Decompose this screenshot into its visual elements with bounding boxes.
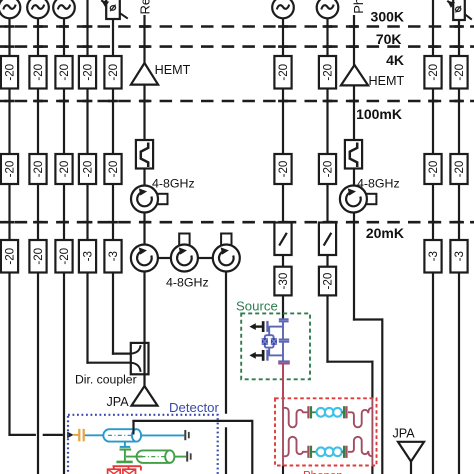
directional coupler bbox=[131, 343, 149, 374]
wire column B 100mK bbox=[326, 184, 328, 224]
detector blue-green coupling capacitor bbox=[120, 442, 132, 458]
attenuator -20 colD 4K bbox=[450, 56, 467, 89]
circulator readout left bbox=[131, 186, 168, 213]
attenuator -3 colC 20mK bbox=[424, 240, 441, 273]
source gen 3 bbox=[53, 0, 75, 18]
wire column 3 300K bbox=[63, 17, 65, 57]
phonon mirror top-right bbox=[348, 408, 372, 427]
wire detector output horizontal bbox=[132, 420, 252, 422]
attenuator -20 col5 4K bbox=[104, 56, 121, 89]
attenuator -20 colB bbox=[319, 267, 336, 296]
svg-text:-20: -20 bbox=[82, 161, 95, 178]
temperature stage boundary 70K/4K bbox=[0, 45, 474, 48]
wire column 1 70K-4K bbox=[8, 89, 10, 155]
wire column 4 to coupler bbox=[86, 273, 88, 364]
source lower phonon port arrow bbox=[249, 350, 283, 361]
svg-text:Phonon: Phonon bbox=[351, 0, 366, 14]
attenuator -20 colA 100mK bbox=[274, 154, 291, 184]
source gen 2 bbox=[27, 0, 49, 18]
wire column 1 crossover segment bbox=[43, 434, 63, 436]
svg-text:-20: -20 bbox=[32, 248, 45, 265]
attenuator -20 col3 20mK bbox=[55, 240, 72, 273]
svg-text:JPA: JPA bbox=[107, 395, 130, 409]
svg-text:Detector: Detector bbox=[169, 400, 219, 415]
source qubit main island wire bbox=[282, 321, 284, 361]
svg-text:JPA: JPA bbox=[393, 427, 416, 441]
wire column B 70K-4K bbox=[326, 89, 328, 155]
green resonator cylinder bbox=[126, 450, 186, 463]
attenuator -20 col4 100mK bbox=[79, 154, 96, 184]
wire column 2 100mK bbox=[37, 184, 39, 240]
circulator chain 3 bbox=[213, 234, 240, 272]
wire column B bottom stub bbox=[371, 466, 373, 474]
source Josephson junction 1 bbox=[262, 338, 268, 345]
wire column 2 300K bbox=[37, 17, 39, 57]
svg-text:-20: -20 bbox=[453, 161, 466, 178]
detector input coupling capacitor bbox=[73, 429, 103, 441]
svg-text:-20: -20 bbox=[107, 161, 120, 178]
source Josephson junction 2 bbox=[271, 338, 277, 345]
svg-text:-20: -20 bbox=[4, 248, 17, 265]
wire column A 70K-4K bbox=[282, 89, 284, 155]
source gen 4 bbox=[272, 0, 294, 18]
wire column 5 70K-4K bbox=[112, 89, 114, 155]
wire column 3 to bottom bbox=[63, 273, 65, 474]
attenuator -20 col3 4K bbox=[55, 56, 72, 89]
svg-text:20mK: 20mK bbox=[366, 225, 404, 241]
phonon crystal waveguide bottom bbox=[307, 446, 347, 458]
attenuator -20 col3 100mK bbox=[55, 154, 72, 184]
wire column C 100mK bbox=[432, 184, 434, 240]
thermal anchor ticks at 70K plate bbox=[5, 45, 464, 48]
wire column C 300K bbox=[432, 0, 434, 56]
wire detector output up bbox=[132, 420, 134, 435]
temperature stage boundary 4K/100mK bbox=[0, 100, 474, 103]
detector cavity open port bbox=[184, 430, 189, 440]
wire circ3 down lower segment bbox=[225, 427, 227, 474]
svg-text:4-8GHz: 4-8GHz bbox=[166, 276, 209, 290]
wire column 1 100mK bbox=[8, 184, 10, 240]
wire column D 70K-4K bbox=[458, 89, 460, 155]
wire column 4 70K-4K bbox=[86, 89, 88, 155]
DC block colA bbox=[274, 223, 291, 256]
source SQUID loop bbox=[265, 327, 274, 356]
phonon left feed rail bottom black bbox=[282, 466, 284, 474]
svg-text:-20: -20 bbox=[322, 64, 335, 81]
svg-text:-20: -20 bbox=[58, 161, 71, 178]
wire readout circ1 to coupler bbox=[143, 271, 145, 344]
wire phonon output line bbox=[353, 15, 355, 66]
phonon mirror bottom-left bbox=[283, 437, 307, 456]
wire column 2 70K-4K bbox=[37, 89, 39, 155]
svg-text:-20: -20 bbox=[277, 64, 290, 81]
phase shifter on pump line left bbox=[101, 0, 128, 19]
wire readout filter to circulator bbox=[143, 169, 145, 187]
attenuator -20 col2 20mK bbox=[29, 240, 46, 273]
wire column 5 to coupler bbox=[112, 273, 114, 355]
source gen 5 bbox=[317, 0, 339, 18]
source gen 1 bbox=[0, 0, 20, 18]
wire phonon jog horizontal bbox=[353, 318, 382, 320]
svg-text:-20: -20 bbox=[277, 161, 290, 178]
wire column 4 100mK bbox=[86, 184, 88, 240]
attenuator -20 colC 4K bbox=[424, 56, 441, 89]
wire phonon down to sample bbox=[381, 318, 383, 474]
attenuator -20 col4 4K bbox=[79, 56, 96, 89]
wire column A 100mK bbox=[282, 184, 284, 224]
svg-text:Source: Source bbox=[236, 299, 278, 314]
svg-text:-20: -20 bbox=[4, 64, 17, 81]
attenuator -3 col4 20mK bbox=[79, 240, 96, 273]
svg-text:100mK: 100mK bbox=[356, 106, 402, 122]
svg-text:-20: -20 bbox=[82, 64, 95, 81]
detector cavity output line bbox=[141, 434, 184, 436]
svg-text:-20: -20 bbox=[453, 64, 466, 81]
HEMT amplifier right bbox=[341, 65, 368, 85]
wire column D 300K bbox=[458, 20, 460, 56]
svg-text:-20: -20 bbox=[4, 161, 17, 178]
wire column 4 300K bbox=[86, 0, 88, 56]
wire column 4 coupler horizontal bbox=[86, 362, 131, 364]
attenuator -20 colB 4K bbox=[319, 56, 336, 89]
wire column 5 coupler horizontal bbox=[112, 353, 132, 355]
thermal anchor ticks at 300K plate bbox=[5, 25, 464, 28]
phonon right feed rail bbox=[371, 398, 373, 466]
DC block colB bbox=[319, 223, 336, 256]
svg-text:HEMT: HEMT bbox=[155, 63, 191, 77]
svg-text:-20: -20 bbox=[32, 64, 45, 81]
attenuator -20 col1 4K bbox=[1, 56, 18, 89]
attenuator -20 col2 100mK bbox=[29, 154, 46, 184]
band-pass filter left readout bbox=[136, 140, 153, 169]
detector antenna probe bbox=[133, 421, 135, 435]
wire column 1 to detector horizontal bbox=[8, 434, 36, 436]
svg-text:-3: -3 bbox=[453, 251, 466, 261]
wire column D 100mK bbox=[458, 184, 460, 240]
svg-text:-20: -20 bbox=[58, 248, 71, 265]
wire circulator chain link 2-3 bbox=[198, 257, 214, 259]
wire column A between blocks bbox=[282, 254, 284, 267]
red SQUID coupler bbox=[108, 466, 141, 474]
svg-text:300K: 300K bbox=[371, 8, 404, 24]
svg-text:-20: -20 bbox=[107, 64, 120, 81]
arrow into detector bbox=[67, 432, 73, 439]
svg-text:-20: -20 bbox=[322, 161, 335, 178]
wire column D to bottom bbox=[458, 273, 460, 474]
svg-text:-3: -3 bbox=[107, 251, 120, 261]
wire coupler to JPA bbox=[143, 374, 145, 387]
phonon waveguide dashed box bbox=[275, 398, 377, 465]
thermal anchor ticks at 4K plate bbox=[5, 100, 464, 103]
JPA amplifier right bbox=[398, 442, 424, 462]
wire column B to phonon box bbox=[371, 361, 373, 399]
wire readout HEMT to filter bbox=[143, 85, 145, 140]
svg-text:-20: -20 bbox=[322, 273, 335, 290]
wire column 5 300K bbox=[112, 19, 114, 56]
wire column A 300K bbox=[282, 17, 284, 57]
attenuator -20 colC 100mK bbox=[424, 154, 441, 184]
attenuator -20 col5 100mK bbox=[104, 154, 121, 184]
wire column B jog horizontal bbox=[326, 361, 373, 363]
svg-text:70K: 70K bbox=[376, 31, 402, 47]
wire source to phonon box crimson bbox=[282, 364, 284, 400]
detector microwave cavity blue bbox=[103, 429, 141, 441]
Detector dotted box bbox=[68, 415, 218, 474]
thermal anchor ticks at 100mK plate bbox=[5, 221, 464, 224]
wire column B 300K bbox=[326, 17, 328, 57]
svg-text:4K: 4K bbox=[386, 52, 404, 68]
JPA amplifier left bbox=[132, 386, 158, 406]
wire column 1 20mK down bbox=[8, 273, 10, 435]
wire column C 70K-4K bbox=[432, 89, 434, 155]
wire JPA2 down bbox=[410, 461, 412, 474]
wire column A to source box bbox=[282, 294, 284, 319]
wire column 3 70K-4K bbox=[63, 89, 65, 155]
phonon left feed rail bbox=[282, 398, 284, 466]
svg-text:-30: -30 bbox=[277, 273, 290, 290]
temperature stage boundary 300K/70K bbox=[0, 25, 474, 28]
attenuator -20 col1 100mK bbox=[1, 154, 18, 184]
source qubit bottom capacitor bbox=[278, 361, 290, 363]
wire phonon HEMT to filter bbox=[353, 85, 355, 140]
svg-text:-20: -20 bbox=[427, 161, 440, 178]
temperature stage boundary 100mK/20mK bbox=[0, 221, 474, 224]
attenuator -30 colA bbox=[274, 267, 291, 296]
attenuator -20 colB 100mK bbox=[319, 154, 336, 184]
attenuator -3 col5 20mK bbox=[104, 240, 121, 273]
wire phonon circulator down bbox=[353, 212, 355, 321]
svg-text:-20: -20 bbox=[32, 161, 45, 178]
svg-text:Readout: Readout bbox=[137, 0, 152, 15]
band-pass filter right readout bbox=[345, 140, 362, 169]
wire readout circulator to chain bbox=[143, 212, 145, 245]
svg-text:HEMT: HEMT bbox=[369, 74, 405, 88]
svg-text:-3: -3 bbox=[427, 251, 440, 261]
circulator chain 1 bbox=[131, 245, 158, 272]
svg-text:-20: -20 bbox=[58, 64, 71, 81]
source qubit drive capacitor bbox=[279, 319, 289, 321]
wire column 2 to bottom bbox=[37, 273, 39, 474]
wire column 3 100mK bbox=[63, 184, 65, 240]
phonon mirror top-left bbox=[283, 408, 307, 427]
circulator readout right bbox=[340, 186, 377, 213]
source qubit middle capacitor bbox=[279, 340, 289, 342]
HEMT amplifier left bbox=[131, 63, 158, 85]
svg-text:-20: -20 bbox=[427, 64, 440, 81]
wire column B down bbox=[326, 294, 328, 362]
phonon crystal waveguide top bbox=[307, 406, 347, 418]
attenuator -20 col1 20mK bbox=[1, 240, 18, 273]
wire detector output down bbox=[251, 420, 253, 474]
attenuator -20 col2 4K bbox=[29, 56, 46, 89]
wire column 1 300K bbox=[8, 17, 10, 57]
phase shifter right bbox=[447, 0, 472, 20]
wire column C to bottom bbox=[432, 273, 434, 474]
wire column 5 100mK bbox=[112, 184, 114, 240]
green resonator open port bbox=[186, 451, 191, 461]
wire circulator chain link 1-2 bbox=[158, 257, 172, 259]
phonon mirror bottom-right bbox=[348, 437, 372, 456]
svg-text:4-8GHz: 4-8GHz bbox=[152, 177, 195, 191]
wire column B between blocks bbox=[326, 254, 328, 267]
attenuator -20 colD 100mK bbox=[450, 154, 467, 184]
attenuator -3 colD 20mK bbox=[450, 240, 467, 273]
svg-text:Dir. coupler: Dir. coupler bbox=[75, 372, 137, 386]
wire phonon filter to circulator bbox=[353, 169, 355, 187]
circulator chain 2 bbox=[171, 234, 198, 272]
wire readout output line bbox=[143, 15, 145, 64]
source upper phonon port arrow bbox=[249, 321, 283, 332]
svg-text:-3: -3 bbox=[82, 251, 95, 261]
attenuator -20 colA 4K bbox=[274, 56, 291, 89]
wire circ3 down bbox=[225, 271, 227, 414]
Source dashed box bbox=[241, 313, 310, 379]
green ground electrode bbox=[116, 458, 132, 462]
svg-text:Phonon: Phonon bbox=[303, 471, 343, 474]
